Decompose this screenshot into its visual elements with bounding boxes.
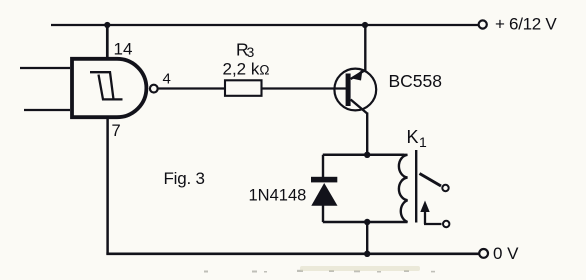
svg-text:Fig. 3: Fig. 3: [164, 169, 205, 188]
svg-text:1: 1: [419, 134, 427, 150]
svg-text:2,2 kΩ: 2,2 kΩ: [223, 60, 270, 79]
svg-text:7: 7: [112, 122, 121, 140]
svg-text:+ 6/12 V: + 6/12 V: [495, 15, 557, 34]
svg-text:1N4148: 1N4148: [249, 187, 307, 205]
svg-text:K: K: [407, 127, 419, 147]
svg-text:14: 14: [114, 40, 133, 59]
svg-text:3: 3: [247, 44, 255, 60]
svg-text:0 V: 0 V: [493, 244, 519, 263]
svg-text:4: 4: [163, 71, 171, 88]
svg-text:BC558: BC558: [389, 71, 443, 91]
